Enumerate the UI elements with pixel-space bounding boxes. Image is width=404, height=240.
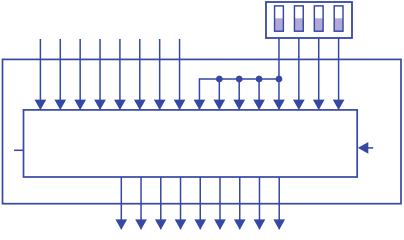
output arrow 6 (wire from U1 bottom)	[214, 177, 226, 230]
input arrow 7 (wire + arrowhead into U1)	[154, 39, 166, 110]
DIP switch S1 element 2	[294, 6, 303, 31]
output arrow 4 (wire from U1 bottom)	[175, 177, 187, 230]
wire from switch element 1 down through bus to U1	[273, 38, 285, 110]
junction dot 1 on tap bus	[216, 76, 223, 83]
bus tap wire 1 + arrowhead into U1	[213, 79, 225, 110]
bus tap wire 3 + arrowhead into U1	[253, 79, 265, 110]
tap bus wire (horizontal)	[199, 78, 279, 80]
bus tap wire 2 + arrowhead into U1	[233, 79, 245, 110]
DIP switch S1 element 1	[275, 6, 284, 31]
output arrow 3 (wire from U1 bottom)	[155, 177, 167, 230]
feedback arrow into U1 right side	[358, 142, 373, 154]
bus left bend wire + arrowhead into U1	[194, 78, 206, 110]
junction dot 2 on tap bus	[236, 76, 243, 83]
wire from switch element 4 to U1	[333, 38, 345, 110]
output arrow 8 (wire from U1 bottom)	[254, 177, 266, 230]
output arrow 1 (wire from U1 bottom)	[115, 177, 127, 230]
DIP switch S1 element 3	[314, 6, 323, 31]
junction dot 4 on tap bus	[276, 76, 283, 83]
register box U1	[24, 110, 358, 177]
input arrow 5 (wire + arrowhead into U1)	[114, 39, 126, 110]
output arrow 5 (wire from U1 bottom)	[194, 177, 206, 230]
input arrow 1 (wire + arrowhead into U1)	[35, 39, 47, 110]
wire from switch element 3 to U1	[313, 38, 325, 110]
output arrow 2 (wire from U1 bottom)	[135, 177, 147, 230]
input arrow 4 (wire + arrowhead into U1)	[94, 39, 106, 110]
DIP switch S1 element 4	[334, 6, 343, 31]
input arrow 8 (wire + arrowhead into U1)	[174, 39, 186, 110]
input arrow 6 (wire + arrowhead into U1)	[134, 39, 146, 110]
input arrow 3 (wire + arrowhead into U1)	[74, 39, 86, 110]
input arrow 2 (wire + arrowhead into U1)	[54, 39, 66, 110]
feedback loop wire (outer rectangle)	[3, 59, 402, 203]
junction dot 3 on tap bus	[256, 76, 263, 83]
left input stub wire into U1	[14, 149, 24, 151]
output arrow 9 (wire from U1 bottom)	[273, 177, 285, 230]
output arrow 7 (wire from U1 bottom)	[234, 177, 246, 230]
wire from switch element 2 to U1	[293, 38, 305, 110]
DIP switch S1 body	[266, 2, 352, 38]
